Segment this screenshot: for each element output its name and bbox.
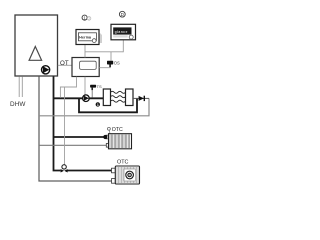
check valve xyxy=(139,96,144,101)
wire to OS sensor xyxy=(110,52,112,61)
callout 1 xyxy=(96,102,100,106)
DHW pipe 1 xyxy=(18,76,20,97)
primary return drop xyxy=(79,98,137,112)
wire unit A to OT box xyxy=(84,45,86,58)
wire branch to zone valve actuator xyxy=(64,87,66,165)
OS sensor lead to OT box xyxy=(99,66,110,68)
svg-text:OT: OT xyxy=(60,60,69,67)
unit D callout xyxy=(119,11,125,17)
radiator 1 valve xyxy=(103,135,107,139)
fan coil tabs xyxy=(112,168,116,173)
svg-text:OS: OS xyxy=(114,61,120,66)
burner triangle xyxy=(29,47,41,61)
zone valve actuator xyxy=(62,165,66,169)
heat exchanger left header xyxy=(103,89,110,106)
zone valve body xyxy=(61,169,65,172)
supply pipe after zone valve to fan coil xyxy=(68,170,112,172)
heat exchanger coils xyxy=(111,91,126,93)
room unit A xyxy=(76,30,99,45)
OT gateway box xyxy=(72,58,99,77)
OT gateway display xyxy=(80,61,97,69)
fan coil fan xyxy=(126,171,134,179)
svg-text:OTC: OTC xyxy=(117,159,128,165)
pump P2 xyxy=(83,95,90,102)
DHW pipe 2 xyxy=(21,76,23,97)
room unit A callout 2 xyxy=(87,17,91,21)
radiator 1 body xyxy=(109,134,132,149)
svg-text:DHW: DHW xyxy=(10,101,26,108)
pipe V2 (supply riser) xyxy=(54,76,61,170)
radiator 1 OTC head icon xyxy=(107,127,110,130)
heat exchanger right header xyxy=(126,89,134,106)
check valve line xyxy=(133,97,149,99)
svg-text:glance: glance xyxy=(115,30,128,34)
svg-text:TS: TS xyxy=(97,84,102,89)
wire unit D drop xyxy=(122,40,124,52)
control unit D xyxy=(111,24,136,40)
boiler pump P1 xyxy=(42,66,50,74)
room unit A callout 1 xyxy=(82,15,87,20)
radiator return pipe xyxy=(39,144,109,146)
main primary supply pipe xyxy=(54,97,104,99)
secondary gray line xyxy=(39,98,149,115)
TS sensor xyxy=(90,85,96,88)
radiator supply pipe xyxy=(54,136,109,138)
svg-text:Herma: Herma xyxy=(79,36,91,40)
svg-text:2: 2 xyxy=(88,17,90,21)
svg-text:OTC: OTC xyxy=(112,127,123,133)
OS sensor xyxy=(107,61,113,65)
fan coil body xyxy=(115,166,139,184)
room unit A side bracket xyxy=(99,34,101,44)
pipe V1 (left return riser) xyxy=(39,76,112,181)
fan coil fan plate xyxy=(124,169,135,181)
boiler xyxy=(15,15,58,76)
wire OT box down to boiler flow sensor tap xyxy=(60,77,76,98)
svg-text:1: 1 xyxy=(97,103,99,107)
wire boiler to OT xyxy=(58,64,72,66)
radiator 1 tabs xyxy=(106,135,108,139)
wire bus horizontal xyxy=(85,51,123,53)
wire OT box to pump P2 xyxy=(84,77,86,95)
